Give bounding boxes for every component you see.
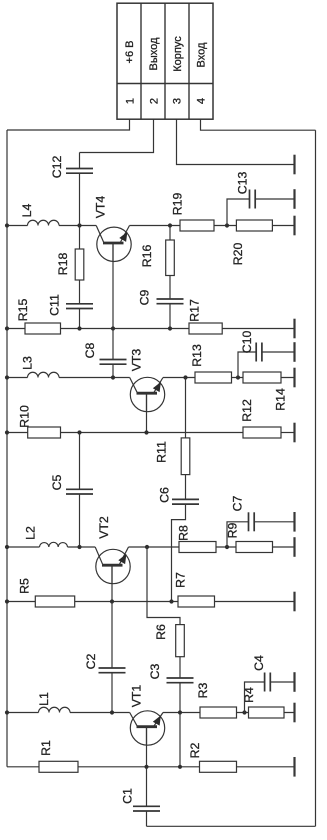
ground (C13) [293, 189, 295, 209]
junction C5 top [77, 430, 81, 434]
ground (R17) [293, 319, 295, 339]
wire row H [7, 766, 237, 768]
transistor VT2 [96, 549, 130, 583]
wire pin3 to ground [177, 119, 295, 164]
wire VT3 base lead down [146, 393, 148, 432]
svg-text:Вход: Вход [195, 42, 207, 67]
resistor R12 [243, 427, 281, 438]
capacitor C11 [66, 303, 93, 305]
wire R2 to ground [237, 766, 295, 768]
wire C5 upper lead [79, 433, 81, 490]
resistor R2 [200, 761, 237, 772]
inductor L2 [40, 542, 68, 547]
capacitor C7 [248, 512, 250, 531]
wire emitter chain to R6 [147, 547, 180, 625]
capacitor C13 [249, 190, 251, 209]
svg-text:R3: R3 [196, 682, 210, 698]
junction rail-L1 [5, 710, 9, 714]
inductor L1 [39, 707, 71, 712]
transistor VT4 [97, 227, 131, 261]
junction C2 bottom [110, 710, 114, 714]
wire VT1 base lead down [146, 727, 148, 767]
junction R3-R4 / C4 [242, 710, 246, 714]
svg-text:C4: C4 [252, 655, 266, 671]
wire C5 lower lead [79, 494, 81, 547]
svg-text:R13: R13 [190, 344, 204, 367]
svg-text:C12: C12 [50, 156, 64, 179]
resistor R18 [75, 249, 84, 280]
svg-text:R10: R10 [17, 405, 31, 428]
svg-text:C9: C9 [137, 289, 151, 305]
junction C8 bottom [111, 375, 115, 379]
wire R18 top lead [79, 226, 81, 250]
capacitor C8 [100, 359, 127, 361]
wire VT3 emitter to R14 [163, 377, 295, 379]
wire VT4 emitter to R20 [130, 225, 295, 227]
junction emitter VT2 chain [145, 545, 149, 549]
wire node G left [7, 712, 39, 714]
ground (R9) [293, 537, 295, 557]
svg-text:VT2: VT2 [97, 516, 111, 539]
resistor R13 [195, 372, 232, 383]
resistor R15 [25, 323, 61, 334]
wire R18 to C11 [79, 280, 81, 304]
resistor R17 [189, 323, 222, 334]
wire row D [7, 432, 243, 434]
wire C7 to ground [254, 521, 294, 523]
resistor R14 [243, 372, 281, 383]
connector XS1 body [117, 3, 213, 119]
svg-text:1: 1 [124, 98, 136, 104]
resistor R11 [181, 438, 190, 475]
svg-text:C11: C11 [47, 294, 61, 316]
svg-text:R7: R7 [173, 572, 187, 588]
resistor R6 [176, 625, 185, 657]
svg-text:R20: R20 [231, 243, 245, 266]
svg-text:C5: C5 [50, 474, 64, 490]
svg-text:R12: R12 [240, 399, 254, 422]
junction C6 chain [169, 599, 173, 603]
svg-text:2: 2 [148, 98, 160, 104]
wire C9 lower lead [169, 304, 171, 329]
resistor R20 [236, 220, 272, 231]
svg-text:R19: R19 [170, 193, 184, 216]
wire C6 to row F [172, 504, 186, 601]
resistor R7 [178, 596, 215, 607]
capacitor C12 [66, 168, 93, 170]
wire pin2 to C12 [80, 119, 154, 152]
junction emitter VT1 / R2 link [178, 710, 182, 714]
resistor R16 [166, 240, 175, 276]
junction emitter VT3 / R11 [183, 375, 187, 379]
junction VT2 base / C2 [110, 599, 114, 603]
wire C7 branch [227, 522, 249, 547]
svg-text:C6: C6 [157, 487, 171, 503]
wire C4 to ground [270, 681, 294, 683]
svg-text:R2: R2 [188, 742, 202, 758]
wire link to R2 run [179, 713, 181, 767]
capacitor C6 [172, 498, 199, 500]
svg-text:L1: L1 [37, 692, 51, 706]
svg-text:L2: L2 [23, 526, 37, 540]
ground (R12) [293, 423, 295, 443]
inductor L3 [28, 372, 60, 377]
wire C13 to ground [255, 198, 294, 200]
wire VT4 base lead down [112, 243, 114, 329]
capacitor C4 [264, 673, 266, 692]
wire L4 to VT4 [59, 225, 96, 227]
capacitor C5 [66, 488, 93, 490]
capacitor C9 [157, 298, 184, 300]
wire C1 upper lead [146, 767, 148, 807]
svg-text:C3: C3 [148, 663, 162, 679]
wire row F [7, 601, 178, 603]
svg-text:VT4: VT4 [93, 196, 107, 219]
ground (pin3 Korpus) [293, 155, 295, 175]
svg-text:Выход: Выход [148, 37, 160, 70]
svg-text:3: 3 [171, 98, 183, 104]
wire R11 top lead [185, 378, 187, 438]
junction rail-R15 [5, 326, 9, 330]
ground (R4) [293, 703, 295, 723]
resistor R10 [28, 427, 61, 438]
ground (R2) [293, 757, 295, 777]
wire node A left [7, 225, 28, 227]
capacitor C1 [133, 805, 160, 807]
junction node A / C12-R18 [77, 223, 81, 227]
junction emitter VT4 / R16 [168, 223, 172, 227]
junction R13-R14 / C10 [236, 375, 240, 379]
junction C5 bottom [77, 545, 81, 549]
svg-text:R17: R17 [187, 299, 201, 322]
junction VT4 base node [111, 326, 115, 330]
wire node E left [7, 546, 40, 548]
svg-text:L3: L3 [20, 356, 34, 370]
svg-text:R16: R16 [140, 245, 154, 268]
wire C3 lower lead [179, 683, 181, 713]
wire R16 to C9 [169, 276, 171, 300]
ground (R20) [293, 216, 295, 236]
wire C13 branch [227, 199, 250, 226]
resistor R9 [236, 542, 273, 553]
capacitor C2 [99, 667, 126, 669]
wire C12 lead lower [79, 173, 81, 225]
junction rail-L4 [5, 223, 9, 227]
junction rail-R10 [5, 430, 9, 434]
wire C10 branch [238, 352, 256, 378]
capacitor C10 [255, 343, 257, 362]
transistor VT1 [130, 711, 164, 745]
ground (R7) [293, 592, 295, 612]
capacitor C3 [167, 677, 194, 679]
wire pin1 to +6V rail [7, 119, 130, 130]
wire VT2 emitter to R9 [129, 546, 295, 548]
svg-text:C10: C10 [240, 331, 254, 354]
transistor VT3 [130, 377, 164, 411]
svg-text:C7: C7 [230, 495, 244, 511]
wire node C left [7, 377, 28, 379]
wire input rail (right) [315, 130, 317, 826]
junction VT1 base / C1 [144, 765, 148, 769]
svg-text:C1: C1 [120, 788, 134, 804]
junction C9 bottom [168, 326, 172, 330]
svg-text:VT1: VT1 [129, 685, 143, 708]
wire VT1 emitter to R4 [163, 712, 295, 714]
wire R7 to ground [215, 601, 295, 603]
junction R8-R9 / C7 [225, 545, 229, 549]
svg-text:R14: R14 [273, 388, 287, 411]
svg-text:C2: C2 [84, 653, 98, 669]
svg-text:C13: C13 [235, 172, 249, 195]
inductor L4 [28, 220, 60, 225]
svg-text:VT3: VT3 [129, 349, 143, 372]
wire row B [7, 328, 295, 330]
ground (C7) [293, 512, 295, 532]
wire C8 lower lead [112, 364, 114, 377]
junction R19-R20 / C13 [225, 223, 229, 227]
svg-text:R6: R6 [154, 624, 168, 640]
resistor R1 [39, 761, 78, 772]
svg-text:R5: R5 [17, 578, 31, 594]
ground (C10) [293, 342, 295, 362]
wire C11 lower lead [79, 309, 81, 329]
svg-text:R18: R18 [56, 253, 70, 276]
wire R11 to C6 [185, 475, 187, 500]
resistor R3 [200, 707, 237, 718]
svg-text:+6 В: +6 В [124, 41, 136, 64]
junction VT3 base node [144, 430, 148, 434]
ground (C4) [293, 672, 295, 692]
wire L3 to VT3 [59, 377, 130, 379]
svg-text:R8: R8 [176, 525, 190, 541]
wire R6 to C3 [179, 657, 181, 678]
junction C11 bottom [77, 326, 81, 330]
wire bottom input [147, 825, 316, 827]
wire C10 to ground [262, 351, 295, 353]
svg-text:R11: R11 [154, 441, 168, 463]
resistor R19 [180, 220, 214, 231]
svg-text:4: 4 [195, 98, 207, 104]
svg-text:L4: L4 [20, 204, 34, 218]
wire VT2 base lead down [111, 565, 113, 601]
junction R2 link [178, 765, 182, 769]
wire C12 lead upper [79, 153, 81, 169]
wire C1 lower lead [146, 811, 148, 826]
ground (R14) [293, 368, 295, 388]
resistor R4 [249, 707, 285, 718]
resistor R5 [35, 596, 74, 607]
resistor R8 [179, 542, 216, 553]
svg-text:C8: C8 [83, 342, 97, 358]
wire pin4 to input rail [201, 119, 316, 130]
wire L1 to VT1 [70, 712, 130, 714]
wire C4 branch [245, 682, 265, 713]
svg-text:R15: R15 [16, 299, 30, 322]
svg-text:Корпус: Корпус [172, 36, 184, 72]
wire C8 upper lead [112, 329, 114, 360]
wire C2 lower lead [111, 673, 113, 713]
junction rail-L3 [5, 375, 9, 379]
wire L2 to VT2 [68, 546, 96, 548]
wire R16 top lead [169, 226, 171, 241]
junction rail-R5 [5, 599, 9, 603]
svg-text:R1: R1 [39, 740, 53, 756]
wire R12 to ground [281, 432, 295, 434]
wire +6V rail (left) [6, 130, 8, 767]
wire C2 upper lead [111, 602, 113, 669]
junction rail-L2 [5, 545, 9, 549]
